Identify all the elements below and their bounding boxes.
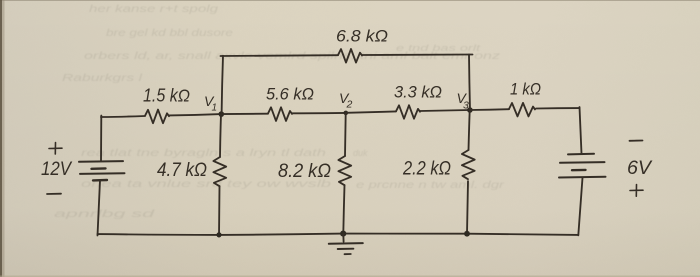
wire: R1.5k to node V1 xyxy=(169,114,221,115)
svg-text:her kanse r+t spolg: her kanse r+t spolg xyxy=(89,4,219,15)
wire: V3 down to R 2.2k xyxy=(469,110,470,150)
resistor R 1k ohm xyxy=(509,103,535,117)
label + of 12V source xyxy=(49,143,62,155)
wire: main top rail, source to R 1.5k xyxy=(101,116,145,117)
svg-text:1: 1 xyxy=(212,103,218,114)
wire: R1k to right rail corner xyxy=(536,107,580,109)
resistor R 2.2k ohm xyxy=(462,150,475,179)
svg-text:1.5 kΩ: 1.5 kΩ xyxy=(143,86,190,106)
battery V2 6V xyxy=(559,154,606,178)
svg-text:3.3 kΩ: 3.3 kΩ xyxy=(394,83,442,102)
label 12V xyxy=(41,159,73,180)
wire: V1 down to R 4.7k xyxy=(220,114,221,157)
resistor R 6.8k ohm xyxy=(338,49,362,63)
wire: V3 to R 1k xyxy=(470,108,509,111)
label + of 6V source xyxy=(630,185,643,197)
resistor R 8.2k ohm xyxy=(338,156,351,185)
wire: top branch right segment xyxy=(362,54,473,57)
wire: battery 12V down to bottom-left corner xyxy=(98,181,101,236)
label 2.2 kOhm xyxy=(402,159,451,180)
junction at ground node xyxy=(340,231,346,237)
node V1 xyxy=(219,111,225,117)
wire: R4.7k down to bottom rail xyxy=(218,186,221,236)
svg-text:5.6 kΩ: 5.6 kΩ xyxy=(266,85,314,104)
wire: left rail, main wire down to battery xyxy=(100,116,102,162)
wire: R3.3k to node V3 xyxy=(420,110,470,111)
resistor R 5.6k ohm xyxy=(268,107,292,121)
resistor R 4.7k ohm xyxy=(213,157,226,186)
svg-text:e tnd bas orlt: e tnd bas orlt xyxy=(396,43,481,53)
wire: top branch drop to V3 xyxy=(469,55,470,110)
node V3 xyxy=(467,107,473,113)
svg-text:1 kΩ: 1 kΩ xyxy=(510,80,541,99)
wire: V2 down to R 8.2k xyxy=(344,113,347,156)
wire: V1 riser to top branch xyxy=(222,56,223,114)
label 3.3 kOhm xyxy=(394,83,442,102)
svg-text:duk: duk xyxy=(353,148,368,158)
wire: R2.2k down to bottom rail xyxy=(467,181,468,233)
junction at V3 bottom xyxy=(464,231,470,237)
svg-text:4.7 kΩ: 4.7 kΩ xyxy=(157,160,207,181)
node V2 xyxy=(344,111,349,116)
svg-text:3: 3 xyxy=(463,100,469,112)
label 1.5 kOhm xyxy=(143,86,190,106)
ground symbol xyxy=(329,234,363,255)
label V3 xyxy=(457,90,470,112)
battery V1 12V xyxy=(79,161,125,180)
wire: V1 to R 5.6k xyxy=(221,113,268,115)
label 8.2 kOhm xyxy=(278,161,331,182)
svg-text:6.8 kΩ: 6.8 kΩ xyxy=(336,27,388,46)
svg-text:apnrlbg sd: apnrlbg sd xyxy=(54,209,155,220)
label 1 kOhm xyxy=(510,80,541,99)
label 5.6 kOhm xyxy=(266,85,314,104)
label V2 xyxy=(339,90,353,111)
wire: R8.2k down to ground junction xyxy=(343,185,344,233)
label 6.8 kOhm xyxy=(336,27,388,46)
junction at V1 bottom xyxy=(216,232,221,237)
label 4.7 kOhm xyxy=(157,160,207,181)
svg-text:12V: 12V xyxy=(41,159,73,180)
wire: V2 to R 3.3k xyxy=(346,111,396,112)
label V1 xyxy=(204,93,217,114)
label 6V xyxy=(627,158,653,179)
svg-text:8.2 kΩ: 8.2 kΩ xyxy=(278,161,331,182)
wire: bottom rail xyxy=(98,234,579,235)
faint bleed-through text xyxy=(54,4,505,220)
resistor R 1.5k ohm xyxy=(145,110,169,124)
svg-text:e prcnne n tw aml. dgr: e prcnne n tw aml. dgr xyxy=(356,180,505,191)
svg-text:Raburkgrs l: Raburkgrs l xyxy=(62,73,143,84)
wire: top branch left segment xyxy=(221,54,339,57)
label minus of 6V source xyxy=(630,140,643,142)
svg-text:bre gel kd bbl dusore: bre gel kd bbl dusore xyxy=(106,28,234,39)
label minus of 12V source xyxy=(47,193,61,195)
wire: R5.6k to node V2 xyxy=(292,112,346,114)
svg-text:6V: 6V xyxy=(627,158,653,179)
svg-text:2.2 kΩ: 2.2 kΩ xyxy=(402,159,451,180)
wire: right rail, main wire down to battery 6V xyxy=(580,107,582,154)
wire: battery 6V down to bottom-right corner xyxy=(578,178,582,236)
resistor R 3.3k ohm xyxy=(396,105,420,119)
svg-text:2: 2 xyxy=(346,99,353,111)
svg-text:rea tlat tne byragln s a lryn: rea tlat tne byragln s a lryn tl dath xyxy=(81,148,327,159)
